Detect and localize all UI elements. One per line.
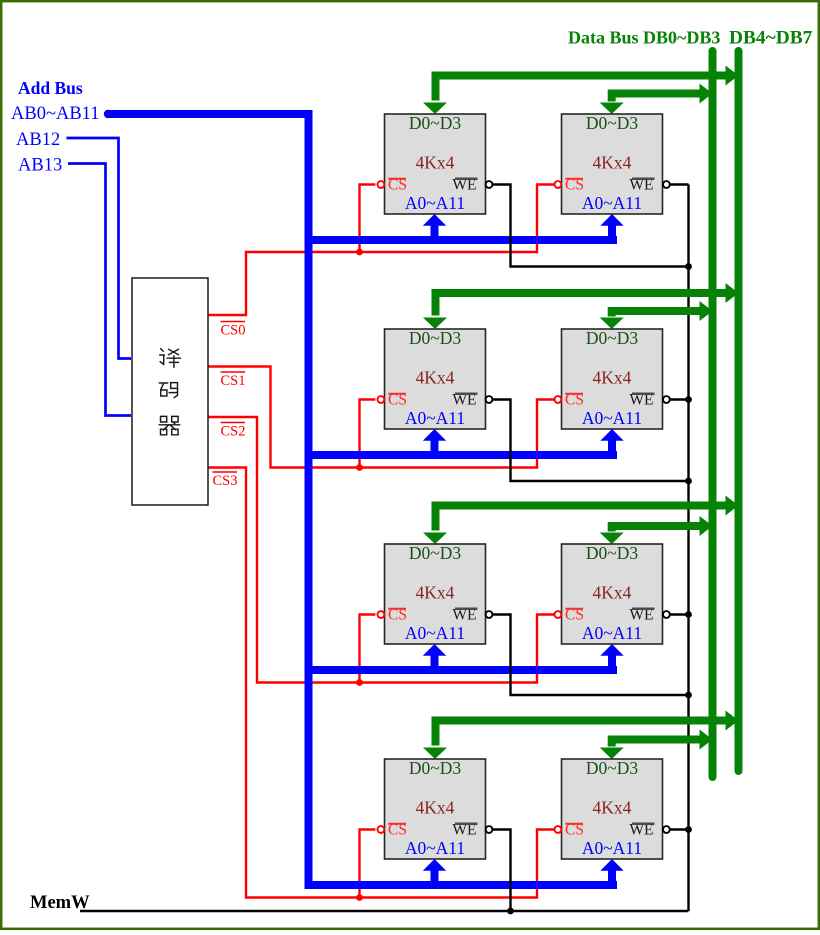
svg-text:D0~D3: D0~D3 [409, 543, 461, 563]
data wire row 4 left chip to DB4~DB7 [436, 721, 726, 746]
svg-text:4Kx4: 4Kx4 [416, 153, 455, 173]
data arrow row 3 into DB0~DB3 [700, 516, 713, 536]
data arrow into row 4 left chip [423, 748, 447, 760]
junction CS0 row 1 [356, 249, 363, 256]
wire CS0 from decoder to row 1 [208, 185, 555, 316]
junction WE rail right chip row 3 [685, 611, 692, 618]
data arrow row 1 into DB0~DB3 [700, 84, 713, 104]
svg-text:4Kx4: 4Kx4 [416, 798, 455, 818]
svg-text:4Kx4: 4Kx4 [416, 368, 455, 388]
label CS3 [213, 472, 238, 489]
pin bubble WE U3 [663, 181, 670, 188]
address bus branch row 2 [305, 451, 618, 459]
RAM chip U6 4Kx4 row 3 left [385, 543, 486, 644]
data arrow row 1 into DB4~DB7 [726, 66, 739, 86]
svg-text:A0~A11: A0~A11 [405, 408, 465, 428]
svg-text:CS3: CS3 [213, 473, 238, 489]
address arrow into row 3 left chip [431, 655, 439, 670]
label CS2 [221, 423, 246, 440]
wire CS3 branch to left chip CS pin [360, 830, 376, 898]
svg-text:D0~D3: D0~D3 [586, 113, 638, 133]
pin bubble CS U8 [378, 826, 385, 833]
data arrow row 4 into DB0~DB3 [700, 730, 713, 750]
wire WE vertical rail [687, 185, 689, 912]
data wire row 1 left chip to DB4~DB7 [436, 76, 726, 101]
address arrow into row 2 left chip [431, 440, 439, 455]
RAM chip U3 4Kx4 row 1 right [562, 113, 663, 214]
label CS1 [221, 372, 246, 389]
address bus branch row 3 [305, 666, 618, 674]
wire CS2 branch to left chip CS pin [360, 615, 376, 683]
wire CS2 from decoder to row 3 [208, 417, 555, 683]
pin bubble CS U5 [555, 396, 562, 403]
address arrow into row 1 right chip [608, 225, 616, 240]
svg-text:AB13: AB13 [18, 156, 62, 176]
pin bubble WE U5 [663, 396, 670, 403]
wire CS1 from decoder to row 2 [208, 367, 555, 468]
RAM chip U2 4Kx4 row 1 left [385, 113, 486, 214]
wire WE left chip row 1 [493, 185, 689, 267]
svg-text:D0~D3: D0~D3 [409, 758, 461, 778]
wire AB13 to decoder [68, 164, 131, 416]
wire WE right chip row 4 [670, 828, 689, 830]
label CS0 [221, 322, 246, 339]
wire CS0 branch to left chip CS pin [360, 185, 376, 253]
address bus AB0~AB11 trunk [104, 110, 112, 118]
svg-text:CS2: CS2 [221, 424, 246, 440]
svg-text:4Kx4: 4Kx4 [416, 583, 455, 603]
svg-text:A0~A11: A0~A11 [405, 838, 465, 858]
junction WE rail right chip row 4 [685, 826, 692, 833]
svg-text:AB12: AB12 [16, 130, 60, 150]
data bus DB0~DB3 vertical [709, 51, 717, 777]
svg-text:4Kx4: 4Kx4 [593, 798, 632, 818]
address arrow into row 2 right chip [608, 440, 616, 455]
wire AB12 to decoder [67, 138, 132, 359]
pin bubble CS U7 [555, 611, 562, 618]
data wire row 3 left chip to DB4~DB7 [436, 506, 726, 531]
pin bubble CS U4 [378, 396, 385, 403]
wire WE left chip row 4 [493, 830, 511, 912]
svg-text:A0~A11: A0~A11 [582, 408, 642, 428]
data arrow into row 1 right chip [600, 103, 624, 115]
wire WE right chip row 3 [670, 613, 689, 615]
data arrow into row 1 left chip [423, 103, 447, 115]
junction WE rail row 2 [685, 478, 692, 485]
svg-text:A0~A11: A0~A11 [582, 193, 642, 213]
wire MemW horizontal rail [80, 910, 689, 912]
svg-text:A0~A11: A0~A11 [405, 193, 465, 213]
decoder U1 box [132, 278, 208, 505]
data arrow into row 3 left chip [423, 533, 447, 545]
data arrow row 2 into DB0~DB3 [700, 301, 713, 321]
svg-text:Data Bus DB0~DB3: Data Bus DB0~DB3 [568, 28, 720, 48]
wire WE left chip row 3 [493, 615, 689, 696]
svg-text:4Kx4: 4Kx4 [593, 583, 632, 603]
data arrow row 2 into DB4~DB7 [726, 283, 739, 303]
data wire row 4 right chip to DB0~DB3 [612, 740, 700, 747]
junction CS1 row 2 [356, 464, 363, 471]
decoder text yi [160, 349, 181, 368]
address arrow into row 3 right chip [608, 655, 616, 670]
svg-text:D0~D3: D0~D3 [409, 328, 461, 348]
data arrow row 4 into DB4~DB7 [726, 711, 739, 731]
RAM chip U9 4Kx4 row 4 right [562, 758, 663, 859]
wire CS3 from decoder to row 4 [208, 468, 555, 898]
address arrow into row 4 right chip [608, 870, 616, 885]
junction WE/MemW row 4 [507, 908, 514, 915]
RAM chip U5 4Kx4 row 2 right [562, 328, 663, 429]
svg-text:A0~A11: A0~A11 [582, 623, 642, 643]
address arrow into row 4 left chip [431, 870, 439, 885]
wire WE right chip row 2 [670, 398, 689, 400]
RAM chip U7 4Kx4 row 3 right [562, 543, 663, 644]
svg-text:D0~D3: D0~D3 [586, 758, 638, 778]
pin bubble WE U2 [486, 181, 493, 188]
svg-text:Add Bus: Add Bus [18, 78, 83, 98]
decoder text qi [159, 416, 180, 434]
svg-text:A0~A11: A0~A11 [582, 838, 642, 858]
data wire row 3 right chip to DB0~DB3 [612, 526, 700, 532]
pin bubble WE U7 [663, 611, 670, 618]
data wire row 2 right chip to DB0~DB3 [612, 311, 700, 317]
address bus branch row 1 [305, 236, 618, 244]
pin bubble CS U9 [555, 826, 562, 833]
svg-text:CS0: CS0 [221, 323, 246, 339]
data bus DB4~DB7 vertical [735, 51, 743, 771]
svg-text:AB0~AB11: AB0~AB11 [11, 104, 99, 124]
junction WE rail row 1 [685, 263, 692, 270]
RAM chip U4 4Kx4 row 2 left [385, 328, 486, 429]
junction WE rail right chip row 2 [685, 396, 692, 403]
pin bubble CS U3 [555, 181, 562, 188]
RAM chip U8 4Kx4 row 4 left [385, 758, 486, 859]
svg-text:MemW: MemW [30, 893, 90, 913]
pin bubble WE U8 [486, 826, 493, 833]
pin bubble CS U2 [378, 181, 385, 188]
data arrow into row 2 right chip [600, 318, 624, 330]
data wire row 1 right chip to DB0~DB3 [612, 94, 700, 102]
pin bubble WE U9 [663, 826, 670, 833]
pin bubble WE U6 [486, 611, 493, 618]
data wire row 2 left chip to DB4~DB7 [436, 293, 726, 316]
data arrow into row 3 right chip [600, 533, 624, 545]
wire WE right chip row 1 [670, 183, 689, 185]
svg-text:DB4~DB7: DB4~DB7 [729, 28, 813, 49]
svg-text:4Kx4: 4Kx4 [593, 153, 632, 173]
decoder text ma [159, 383, 177, 398]
pin bubble CS U6 [378, 611, 385, 618]
data arrow into row 4 right chip [600, 748, 624, 760]
data arrow row 3 into DB4~DB7 [726, 496, 739, 516]
svg-text:D0~D3: D0~D3 [586, 328, 638, 348]
svg-text:D0~D3: D0~D3 [586, 543, 638, 563]
address arrow into row 1 left chip [431, 225, 439, 240]
junction WE rail row 3 [685, 692, 692, 699]
pin bubble WE U4 [486, 396, 493, 403]
junction CS2 row 3 [356, 679, 363, 686]
svg-text:D0~D3: D0~D3 [409, 113, 461, 133]
wire CS1 branch to left chip CS pin [360, 400, 376, 468]
svg-text:4Kx4: 4Kx4 [593, 368, 632, 388]
svg-text:CS1: CS1 [221, 373, 246, 389]
data arrow into row 2 left chip [423, 318, 447, 330]
wire WE left chip row 2 [493, 400, 689, 482]
svg-text:A0~A11: A0~A11 [405, 623, 465, 643]
junction CS3 row 4 [356, 894, 363, 901]
